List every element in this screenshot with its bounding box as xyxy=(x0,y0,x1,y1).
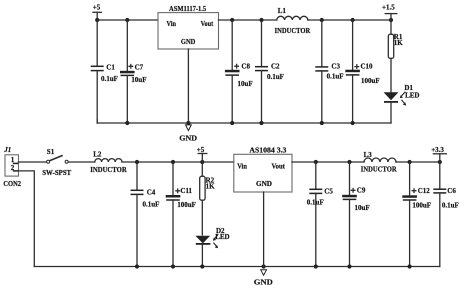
svg-text:Vout: Vout xyxy=(272,162,286,170)
capacitor C4 xyxy=(131,162,160,267)
wire bottom circuit bottom rail xyxy=(34,266,440,268)
svg-text:C10: C10 xyxy=(361,63,374,71)
capacitor C3 xyxy=(315,20,343,123)
svg-text:C7: C7 xyxy=(135,63,144,71)
wire J1 pin2 stub xyxy=(19,171,35,267)
node junction R1 / +1.5 xyxy=(389,18,393,22)
node junction D2 bottom xyxy=(200,264,204,268)
svg-text:0.1uF: 0.1uF xyxy=(307,199,324,207)
node junction C7 top xyxy=(125,18,129,22)
node junction C11 bottom xyxy=(171,264,175,268)
switch S1 SW-SPST xyxy=(42,148,71,177)
node junction C2 bottom xyxy=(259,121,263,125)
svg-text:C9: C9 xyxy=(357,187,366,195)
regulator U1 ASM1117-1.5 xyxy=(158,5,219,49)
node junction C12 bottom xyxy=(408,264,412,268)
node junction GND stub xyxy=(186,121,190,125)
svg-text:SW-SPST: SW-SPST xyxy=(42,169,71,177)
svg-text:LED: LED xyxy=(215,233,229,241)
svg-text:0.1uF: 0.1uF xyxy=(327,73,344,81)
svg-text:L2: L2 xyxy=(93,151,102,159)
node junction C9 top xyxy=(347,160,351,164)
svg-text:1K: 1K xyxy=(394,39,404,47)
resistor R2 xyxy=(200,162,215,235)
node junction +5/C1 xyxy=(95,18,99,22)
wire top circuit bottom rail xyxy=(97,122,391,124)
svg-text:Vin: Vin xyxy=(237,162,247,170)
capacitor C1 xyxy=(91,20,118,123)
node junction C5 bottom xyxy=(314,264,318,268)
wire switch to L2 xyxy=(68,161,95,163)
wire top rail right segment xyxy=(219,19,277,21)
capacitor C11 (polarized) xyxy=(166,162,196,267)
svg-text:GND: GND xyxy=(179,134,197,142)
svg-text:CON2: CON2 xyxy=(3,180,21,188)
svg-text:L1: L1 xyxy=(278,7,287,15)
svg-text:C2: C2 xyxy=(271,62,280,70)
capacitor C7 (polarized) xyxy=(120,20,146,123)
node junction C2 top xyxy=(259,18,263,22)
node junction C7 bottom xyxy=(125,121,129,125)
svg-text:0.1uF: 0.1uF xyxy=(143,201,160,209)
svg-text:1K: 1K xyxy=(206,182,216,190)
wire top rail left segment xyxy=(97,19,158,21)
ground symbol (bottom circuit) xyxy=(254,270,274,287)
capacitor C5 xyxy=(307,162,334,267)
wire J1 pin1 to switch xyxy=(19,161,47,163)
node junction C11 top xyxy=(171,160,175,164)
svg-text:100uF: 100uF xyxy=(177,201,196,209)
wire rail right of L3 xyxy=(396,161,440,163)
power +3.3 xyxy=(431,146,446,162)
node junction C5 top xyxy=(314,160,318,164)
node junction +3.3 / C6 xyxy=(438,160,442,164)
regulator U2 AS1084 3.3 xyxy=(234,147,292,192)
wire U2 GND stub xyxy=(263,192,265,267)
svg-text:ASM1117-1.5: ASM1117-1.5 xyxy=(169,5,207,13)
svg-text:J1: J1 xyxy=(3,146,11,154)
wire top rail right of L1 xyxy=(308,19,391,21)
svg-text:100uF: 100uF xyxy=(361,77,380,85)
svg-text:INDUCTOR: INDUCTOR xyxy=(361,166,398,174)
svg-text:100uF: 100uF xyxy=(412,202,431,210)
node junction C4 bottom xyxy=(135,264,139,268)
svg-text:INDUCTOR: INDUCTOR xyxy=(90,166,127,174)
svg-text:+5: +5 xyxy=(93,4,101,12)
svg-text:+5: +5 xyxy=(197,146,205,154)
capacitor C8 (polarized) xyxy=(225,20,253,123)
svg-text:C11: C11 xyxy=(180,187,192,195)
svg-text:10uF: 10uF xyxy=(355,204,370,212)
power +5 (bottom) xyxy=(197,146,207,162)
wire U2 Vout rail xyxy=(292,161,364,163)
node junction C3 bottom xyxy=(320,121,324,125)
node junction C8 bottom xyxy=(230,121,234,125)
svg-text:C5: C5 xyxy=(324,187,333,195)
svg-text:10uF: 10uF xyxy=(131,76,146,84)
svg-text:0.1uF: 0.1uF xyxy=(101,75,118,83)
LED D1 xyxy=(384,84,420,123)
power +5 (top left) xyxy=(93,4,102,21)
svg-text:S1: S1 xyxy=(47,148,55,156)
inductor L3 xyxy=(361,151,398,174)
svg-text:GND: GND xyxy=(254,277,274,286)
svg-text:C1: C1 xyxy=(106,63,115,71)
connector J1 CON2 xyxy=(3,146,21,188)
node junction C9 bottom xyxy=(347,264,351,268)
svg-text:C12: C12 xyxy=(418,187,431,195)
svg-text:C4: C4 xyxy=(147,189,156,197)
node junction R2 / +5 xyxy=(200,160,204,164)
wire L2 to U2 Vin xyxy=(122,161,234,163)
svg-text:INDUCTOR: INDUCTOR xyxy=(275,27,311,35)
svg-text:0.1uF: 0.1uF xyxy=(442,202,459,210)
wire U1 GND stub xyxy=(187,49,189,123)
svg-text:C3: C3 xyxy=(331,63,340,71)
ground symbol (top circuit) xyxy=(179,125,197,142)
node junction C3 top xyxy=(320,18,324,22)
svg-text:Vin: Vin xyxy=(167,20,176,28)
inductor L1 xyxy=(275,7,311,35)
capacitor C10 (polarized) xyxy=(345,20,379,123)
svg-text:AS1084 3.3: AS1084 3.3 xyxy=(249,147,287,155)
capacitor C2 xyxy=(255,20,284,123)
svg-text:C6: C6 xyxy=(447,187,456,195)
svg-text:GND: GND xyxy=(256,180,272,188)
svg-text:0.1uF: 0.1uF xyxy=(267,73,284,81)
node junction C4 top xyxy=(135,160,139,164)
svg-text:C8: C8 xyxy=(241,62,250,70)
inductor L2 xyxy=(90,151,127,174)
LED D2 xyxy=(195,227,229,266)
svg-text:+1.5: +1.5 xyxy=(382,3,395,11)
node junction U2 GND xyxy=(262,264,266,268)
node junction C10 top xyxy=(351,18,355,22)
resistor R1 xyxy=(388,20,403,92)
capacitor C9 (polarized) xyxy=(342,162,369,267)
svg-text:Vout: Vout xyxy=(201,20,214,28)
capacitor C12 (polarized) xyxy=(402,162,431,267)
capacitor C6 xyxy=(433,162,459,267)
power +1.5 xyxy=(382,3,397,20)
node junction C8 top xyxy=(230,18,234,22)
node junction C1 bottom corner xyxy=(96,120,98,123)
node junction C10 bottom xyxy=(351,121,355,125)
svg-text:+3.3: +3.3 xyxy=(431,146,444,154)
node junction C12 top xyxy=(408,160,412,164)
svg-text:10uF: 10uF xyxy=(238,80,253,88)
svg-text:GND: GND xyxy=(181,38,196,46)
svg-text:LED: LED xyxy=(405,91,419,99)
